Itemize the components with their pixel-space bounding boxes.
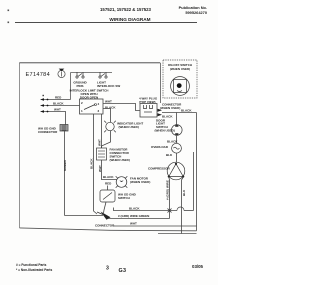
- svg-text:03/05: 03/05: [192, 264, 204, 269]
- header rule: [15, 22, 197, 24]
- svg-text:(WHEN USED): (WHEN USED): [160, 106, 180, 110]
- svg-text:WIRING DIAGRAM: WIRING DIAGRAM: [109, 17, 150, 22]
- svg-text:# = Functional Parts: # = Functional Parts: [16, 263, 47, 267]
- svg-text:BLACK: BLACK: [167, 140, 178, 144]
- wire blk leg: [182, 177, 184, 234]
- svg-text:COMPRESSOR: COMPRESSOR: [148, 167, 171, 171]
- wire green ground down: [64, 131, 66, 216]
- svg-text:RED: RED: [105, 182, 112, 186]
- svg-text:# (GRD) WIRE: # (GRD) WIRE: [166, 180, 170, 200]
- svg-text:3: 3: [98, 109, 100, 113]
- svg-text:(WHEN USED): (WHEN USED): [130, 180, 150, 184]
- overload protector: [172, 143, 182, 153]
- main connector junction: [101, 212, 111, 220]
- wire ground bottom: [108, 218, 170, 220]
- svg-text:4: 4: [98, 102, 100, 106]
- wire right vertical outer: [196, 113, 198, 231]
- cold control thermostat box: [80, 99, 104, 114]
- wire right vertical inner: [193, 152, 195, 211]
- svg-text:WHT: WHT: [105, 100, 112, 104]
- crossing mark: [168, 209, 172, 213]
- svg-text:OVERLOAD: OVERLOAD: [151, 145, 169, 149]
- ground connector box: [60, 125, 68, 132]
- svg-text:CONNECTOR: CONNECTOR: [95, 224, 115, 228]
- svg-text:BLK: BLK: [182, 189, 186, 196]
- svg-text:RED: RED: [55, 96, 62, 100]
- supply connector arrow black: [40, 104, 44, 107]
- svg-text:BLACK: BLACK: [89, 158, 93, 169]
- supply connector arrow white: [40, 110, 44, 113]
- svg-text:WHT: WHT: [54, 108, 61, 112]
- wire black feed: [44, 105, 80, 107]
- switch S2 light interlock: [99, 72, 107, 78]
- svg-text:BLACK: BLACK: [129, 207, 140, 211]
- fan connector box: [97, 148, 107, 160]
- wire black to overload: [176, 136, 178, 143]
- wire black vertical from thermostat: [94, 114, 98, 214]
- interlock inner box top: [71, 72, 113, 74]
- wire white bottom: [113, 225, 197, 227]
- svg-text:GREEN: GREEN: [63, 160, 67, 171]
- indicator light branch wire: [103, 109, 111, 123]
- svg-text:5995264270: 5995264270: [185, 10, 207, 15]
- svg-text:2: 2: [81, 101, 83, 105]
- supply connector arrow red: [40, 98, 44, 101]
- interlock inner box left: [70, 73, 72, 100]
- schematic border right upper stub: [160, 63, 162, 103]
- wire box to junction: [104, 202, 107, 213]
- svg-text:(WHEN USED): (WHEN USED): [119, 125, 139, 129]
- svg-text:CONNECTOR: CONNECTOR: [38, 130, 58, 134]
- svg-text:(WHEN USED): (WHEN USED): [110, 158, 130, 162]
- svg-text:* = Non-Illustrated Parts: * = Non-Illustrated Parts: [16, 268, 52, 272]
- light bulb: [171, 77, 190, 96]
- svg-text:G3: G3: [119, 268, 127, 274]
- switch S1 ground pins: [76, 72, 84, 78]
- svg-text:BLK: BLK: [166, 153, 173, 157]
- compressor motor: [167, 162, 185, 180]
- four way plug box: [140, 104, 157, 118]
- wire red: [44, 99, 71, 101]
- bottom auxiliary line: [158, 233, 197, 235]
- thermostat switch blade: [84, 105, 95, 110]
- schematic outer border left: [19, 63, 21, 228]
- wire door switch feed: [176, 113, 178, 126]
- svg-text:WHT: WHT: [98, 139, 102, 146]
- svg-text:PINS: PINS: [76, 84, 83, 88]
- punch dot 2: [8, 22, 10, 24]
- wire white vertical to fan: [101, 114, 103, 148]
- wire to junction from ground: [65, 215, 104, 217]
- svg-text:BLACK: BLACK: [53, 102, 64, 106]
- indicator return wire: [102, 131, 111, 148]
- plug arrows: [158, 109, 163, 112]
- wire fan feed: [102, 160, 117, 180]
- svg-text:E714784: E714784: [26, 72, 51, 78]
- wire black bottom: [114, 208, 178, 211]
- wire hop: [177, 207, 184, 210]
- svg-text:3: 3: [106, 266, 109, 272]
- svg-text:# (GRD) WIRE GREEN: # (GRD) WIRE GREEN: [118, 214, 149, 218]
- wire white feed: [44, 112, 66, 125]
- schematic outer border top: [20, 62, 161, 64]
- fan motor: [116, 176, 128, 188]
- svg-text:157521, 157522 & 157523: 157521, 157522 & 157523: [100, 7, 152, 12]
- defrost heater wire: [107, 186, 109, 191]
- wire blk to compressor: [176, 153, 178, 162]
- door switch: [172, 124, 183, 135]
- svg-text:BLACK: BLACK: [103, 175, 114, 179]
- wire ground leg: [168, 177, 171, 219]
- power plug symbol: [58, 69, 65, 78]
- svg-text:1: 1: [81, 109, 83, 113]
- ground switch box: [100, 190, 115, 202]
- light switch dashed box: [163, 60, 197, 98]
- supply dot: [43, 95, 44, 96]
- svg-text:SWITCH: SWITCH: [118, 196, 130, 200]
- wire white from thermostat: [103, 104, 140, 111]
- svg-text:BLACK: BLACK: [181, 109, 192, 113]
- indicator light: [104, 121, 116, 133]
- svg-text:INTERLOCK SW: INTERLOCK SW: [97, 84, 120, 88]
- wire black light feed: [162, 112, 197, 114]
- schematic outer border bottom: [20, 228, 197, 231]
- punch dot 1: [8, 10, 10, 12]
- svg-text:(WHEN USED): (WHEN USED): [170, 67, 190, 71]
- svg-text:(WHEN USED): (WHEN USED): [155, 129, 175, 133]
- svg-text:WHT: WHT: [130, 222, 137, 226]
